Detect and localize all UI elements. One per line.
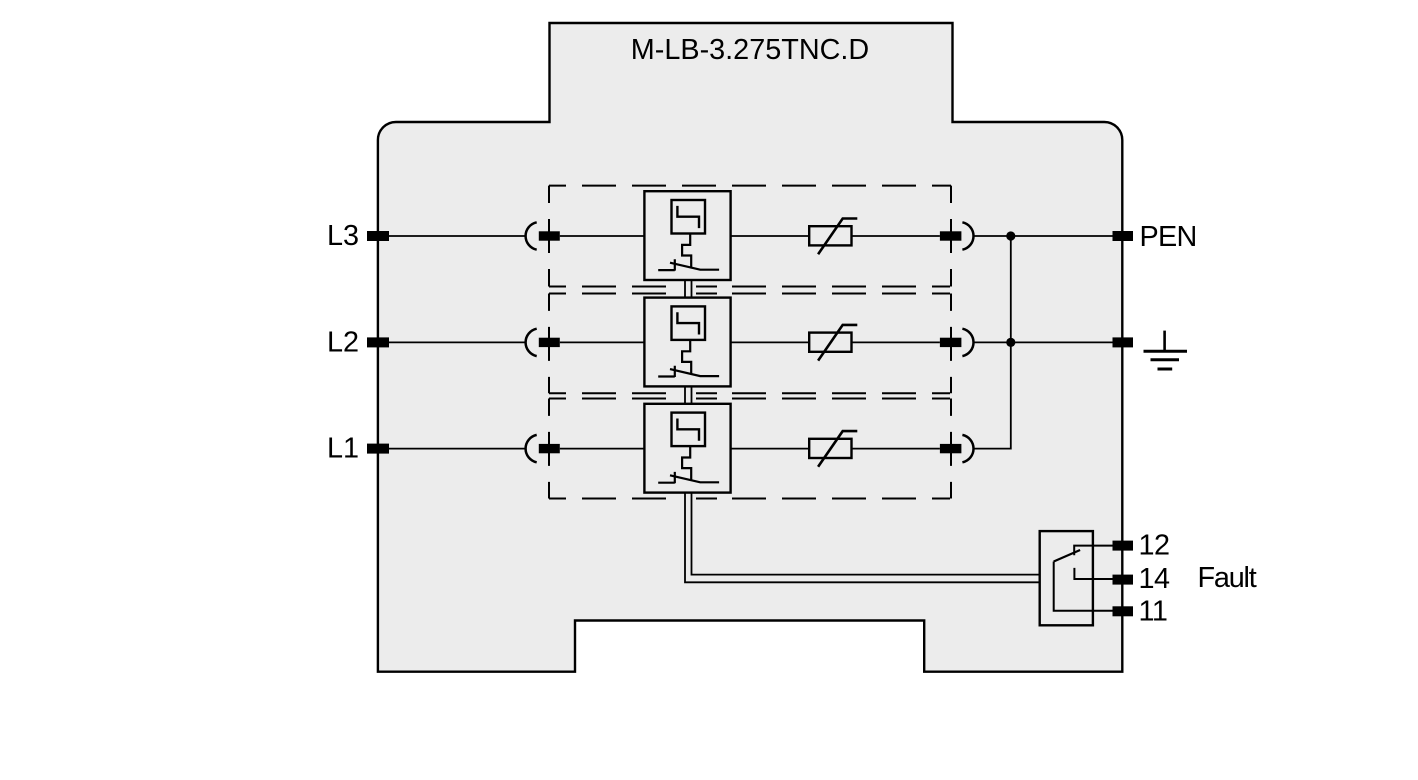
plug-in terminal (right, row L2) (940, 338, 962, 347)
wire L3 input to plug connector (389, 235, 525, 237)
dashed enclosure of SPD cartridge 1 (549, 186, 951, 287)
wire plug to disconnector (row L3) (560, 235, 645, 237)
dashed enclosure of SPD cartridge 2 (549, 294, 951, 394)
terminal PEN (right output) (1113, 231, 1134, 241)
terminal 14 (1113, 575, 1134, 585)
terminal 12 (1113, 541, 1134, 551)
wire L1 input to plug connector (389, 448, 525, 450)
plug connector socket arc (right, row L3) (962, 222, 973, 249)
terminal L1 (left input terminal) (367, 444, 389, 454)
svg-text:14: 14 (1139, 563, 1171, 595)
wire L3 output to PEN terminal (974, 235, 1112, 237)
device body outline (DIN-rail module silhouette) (378, 23, 1122, 672)
varistor RV3 (809, 431, 857, 467)
plug connector socket arc (left, row L3) (526, 222, 537, 249)
contact 12 wire (NC) (1074, 546, 1112, 556)
dashed enclosure of SPD cartridge 3 (549, 399, 951, 499)
svg-text:12: 12 (1139, 530, 1170, 562)
contact 14 wire (NO) (1074, 568, 1112, 579)
wire L1 output to PE bus (974, 236, 1011, 449)
thermal disconnector F2 (SPD cartridge disconnect) (644, 298, 730, 387)
wire varistor to right plug terminal (row L3) (852, 235, 940, 237)
thermal disconnector F1 (SPD cartridge disconnect) (644, 191, 730, 280)
wire varistor to right plug terminal (row L1) (852, 448, 940, 450)
wire disconnector to varistor (row L3) (731, 235, 810, 237)
signal wire pair from disconnector 3 to fault contact (685, 493, 1040, 583)
link wire pair between disconnector 1 and 2 (685, 280, 692, 298)
thermal disconnector F3 (SPD cartridge disconnect) (644, 404, 730, 493)
plug-in terminal (right, row L3) (940, 231, 962, 240)
wire varistor to right plug terminal (row L2) (852, 341, 940, 343)
wire plug to disconnector (row L2) (560, 341, 645, 343)
plug-in terminal (left, row L2) (539, 338, 560, 347)
terminal 11 (1113, 606, 1134, 616)
svg-text:L2: L2 (327, 326, 359, 358)
plug-in terminal (right, row L1) (940, 444, 962, 453)
plug connector socket arc (left, row L1) (526, 435, 537, 462)
contact 11 wire (common) (1054, 562, 1113, 611)
svg-text:M-LB-3.275TNC.D: M-LB-3.275TNC.D (631, 34, 869, 66)
wire disconnector to varistor (row L2) (731, 341, 810, 343)
plug connector socket arc (left, row L2) (526, 329, 537, 356)
svg-text:11: 11 (1139, 596, 1168, 628)
svg-text:Fault: Fault (1198, 562, 1257, 594)
svg-text:PEN: PEN (1140, 221, 1197, 253)
junction node (PE bus / L3 row) (1006, 231, 1015, 240)
wire plug to disconnector (row L1) (560, 448, 645, 450)
plug-in terminal (left, row L3) (539, 231, 560, 240)
wire L2 input to plug connector (389, 341, 525, 343)
plug connector socket arc (right, row L2) (962, 329, 973, 356)
wire disconnector to varistor (row L1) (731, 448, 810, 450)
terminal L3 (left input terminal) (367, 231, 389, 241)
terminal PE/ground (1113, 337, 1134, 347)
svg-text:L1: L1 (327, 433, 359, 465)
link wire pair between disconnector 2 and 3 (685, 386, 692, 404)
contact blade (common to NC) (1054, 550, 1080, 562)
svg-text:L3: L3 (327, 220, 359, 252)
plug connector socket arc (right, row L1) (962, 435, 973, 462)
ground symbol (earth) (1144, 331, 1188, 369)
wire L2 output to ground terminal (974, 341, 1112, 343)
junction node (PE bus / L2 row) (1006, 338, 1015, 347)
fault signal contact K1 (changeover) (1040, 531, 1113, 625)
plug-in terminal (left, row L1) (539, 444, 560, 453)
terminal L2 (left input terminal) (367, 337, 389, 347)
varistor RV2 (809, 325, 857, 361)
varistor RV1 (809, 219, 857, 255)
